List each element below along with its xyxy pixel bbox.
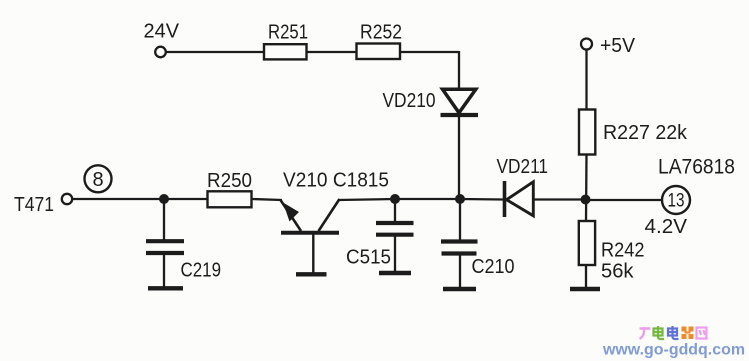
svg-text:4.2V: 4.2V — [645, 216, 688, 238]
ground under transistor — [296, 272, 327, 276]
svg-text:www.go-gddq.com: www.go-gddq.com — [602, 342, 745, 359]
watermark char 1 — [640, 327, 651, 339]
svg-text:V210 C1815: V210 C1815 — [283, 170, 389, 192]
resistor R251 — [264, 44, 307, 59]
svg-text:C515: C515 — [346, 247, 391, 269]
svg-text:LA76818: LA76818 — [658, 156, 735, 179]
wire VD210 cathode down to node B — [458, 116, 460, 199]
wire R251 to R252 — [307, 51, 358, 53]
capacitor C219 — [146, 241, 184, 286]
ground under C219 — [148, 286, 183, 290]
wire R250 to transistor emitter — [252, 199, 283, 200]
pin 13 bubble — [662, 186, 690, 214]
svg-text:T471: T471 — [14, 194, 54, 216]
wire terminal to R250 — [73, 198, 208, 200]
wire node B down to C210 — [459, 199, 461, 240]
junction node C — [581, 195, 591, 205]
svg-text:VD211: VD211 — [497, 156, 549, 178]
transistor V210 — [281, 199, 340, 273]
wire node A down to C219 — [163, 199, 165, 240]
junction node B — [455, 194, 465, 204]
wire R242 to ground — [585, 265, 587, 287]
ground under C210 — [443, 287, 476, 291]
junction node B1 — [390, 194, 400, 204]
terminal from T471 — [62, 194, 72, 204]
wire node B to VD211 cathode — [460, 198, 503, 201]
ground under R242 — [570, 287, 600, 292]
wire R227 to node C — [585, 155, 588, 222]
terminal 24V — [155, 47, 166, 58]
watermark char 2 — [654, 326, 665, 339]
wire node B1 to node B — [395, 198, 460, 200]
svg-text:R252: R252 — [360, 22, 402, 44]
svg-text:VD210: VD210 — [383, 90, 436, 112]
pin 8 bubble — [85, 165, 112, 192]
watermark char 3 — [668, 326, 679, 339]
svg-text:R227 22k: R227 22k — [603, 122, 688, 144]
svg-text:56k: 56k — [601, 261, 635, 283]
watermark char 5 — [697, 328, 707, 339]
svg-text:R242: R242 — [601, 240, 645, 262]
resistor R250 — [208, 191, 252, 207]
wire R252 to corner — [400, 51, 459, 53]
svg-text:R251: R251 — [268, 22, 308, 44]
svg-text:8: 8 — [92, 169, 103, 191]
diode VD210 — [441, 89, 479, 115]
wire VD211 anode to node C — [534, 198, 586, 200]
junction node A — [159, 194, 169, 204]
wire +5V to R227 — [585, 50, 587, 111]
wire transistor collector to node B1 — [338, 199, 395, 200]
wire node C to pin 13 — [586, 199, 662, 201]
svg-text:R250: R250 — [207, 170, 252, 192]
wire 24V terminal to R251 — [166, 51, 264, 53]
svg-text:+5V: +5V — [600, 35, 636, 57]
wire node B1 down to C515 — [394, 199, 396, 223]
wire corner down to VD210 anode — [458, 51, 460, 89]
resistor R242 — [579, 221, 595, 265]
diode VD211 — [505, 181, 534, 217]
svg-text:24V: 24V — [144, 21, 180, 43]
svg-text:C210: C210 — [472, 256, 515, 278]
ground under C515 — [379, 271, 411, 275]
watermark char 4 — [682, 327, 694, 340]
svg-text:C219: C219 — [181, 260, 222, 282]
resistor R227 — [579, 110, 595, 155]
resistor R252 — [357, 44, 401, 60]
capacitor C515 — [376, 223, 414, 271]
terminal +5V — [581, 39, 592, 50]
svg-text:13: 13 — [668, 191, 685, 212]
capacitor C210 — [441, 242, 478, 288]
